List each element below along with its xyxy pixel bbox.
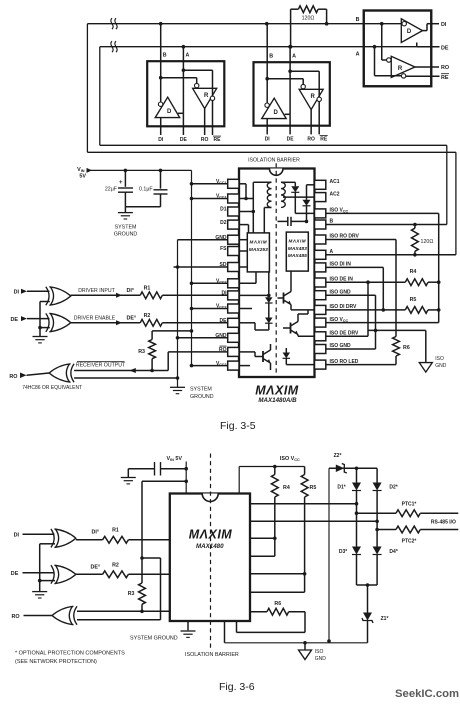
svg-text:GROUND: GROUND <box>114 231 138 237</box>
svg-text:D: D <box>167 109 172 115</box>
svg-text:* OPTIONAL PROTECTION COMPONEN: * OPTIONAL PROTECTION COMPONENTS <box>15 651 125 657</box>
svg-text:MAX483: MAX483 <box>288 246 307 252</box>
svg-text:D: D <box>407 29 412 35</box>
svg-text:SYSTEM GROUND: SYSTEM GROUND <box>130 635 178 641</box>
svg-text:GND: GND <box>315 656 327 662</box>
svg-text:RE: RE <box>441 75 449 81</box>
svg-text:A: A <box>292 54 296 60</box>
svg-text:120Ω: 120Ω <box>302 16 315 22</box>
svg-text:DI: DI <box>158 137 164 143</box>
svg-text:R: R <box>310 94 315 100</box>
svg-text:DI: DI <box>14 290 20 296</box>
svg-text:R5: R5 <box>310 485 317 491</box>
svg-text:GND: GND <box>435 363 447 369</box>
svg-text:MAX485: MAX485 <box>288 253 307 259</box>
svg-text:SYSTEM: SYSTEM <box>115 224 137 230</box>
svg-text:DI: DI <box>222 291 228 297</box>
svg-text:Z2*: Z2* <box>334 453 342 459</box>
svg-text:RO: RO <box>201 137 209 143</box>
svg-text:R3: R3 <box>128 591 135 597</box>
svg-text:DRIVER ENABLE: DRIVER ENABLE <box>74 316 116 322</box>
svg-text:ΜΛXIΜ: ΜΛXIΜ <box>289 239 307 244</box>
svg-text:Fig. 3-5: Fig. 3-5 <box>220 420 256 432</box>
svg-text:74HC86 OR EQUIVALENT: 74HC86 OR EQUIVALENT <box>22 385 82 391</box>
svg-text:RO: RO <box>441 65 449 71</box>
svg-text:AC1: AC1 <box>330 179 340 185</box>
svg-text:D2*: D2* <box>389 485 397 491</box>
svg-text:DRIVER INPUT: DRIVER INPUT <box>78 288 115 294</box>
svg-text:DE: DE <box>11 571 19 577</box>
svg-text:0.1μF: 0.1μF <box>139 187 153 193</box>
svg-text:DI: DI <box>14 533 20 539</box>
svg-text:ISO: ISO <box>315 649 324 655</box>
svg-text:D1: D1 <box>220 207 227 213</box>
svg-text:DI°: DI° <box>92 530 100 536</box>
svg-text:AC2: AC2 <box>330 191 340 197</box>
svg-text:ISOLATION BARRIER: ISOLATION BARRIER <box>248 157 300 163</box>
svg-text:DE: DE <box>11 317 19 323</box>
svg-text:MAX1480A/B: MAX1480A/B <box>258 397 297 404</box>
svg-text:DE: DE <box>441 45 449 51</box>
svg-text:R6: R6 <box>274 601 281 607</box>
svg-text:R2: R2 <box>144 313 151 319</box>
svg-text:RE: RE <box>320 137 328 143</box>
svg-text:DI°: DI° <box>127 288 135 294</box>
svg-text:R3: R3 <box>138 349 145 355</box>
svg-text:DI: DI <box>441 22 447 28</box>
svg-text:DE: DE <box>180 137 188 143</box>
svg-text:A: A <box>356 52 360 58</box>
svg-text:D3*: D3* <box>339 549 347 555</box>
svg-text:Z1*: Z1* <box>381 616 389 622</box>
svg-text:B: B <box>163 53 167 59</box>
svg-text:R4: R4 <box>283 485 290 491</box>
svg-text:ISOLATION BARRIER: ISOLATION BARRIER <box>185 652 239 658</box>
svg-text:RO: RO <box>12 614 20 620</box>
svg-text:ΜΛXIΜ: ΜΛXIΜ <box>189 528 233 542</box>
svg-text:FS: FS <box>220 246 227 252</box>
svg-text:ΜΛXIΜ: ΜΛXIΜ <box>255 384 299 398</box>
svg-text:DE: DE <box>220 318 228 324</box>
svg-text:A: A <box>185 53 189 59</box>
svg-text:B: B <box>269 54 273 60</box>
svg-text:Fig. 3-6: Fig. 3-6 <box>219 681 255 693</box>
svg-text:(SEE NETWORK PROTECTION): (SEE NETWORK PROTECTION) <box>15 659 97 665</box>
svg-text:GROUND: GROUND <box>190 394 214 400</box>
svg-text:PTC1*: PTC1* <box>402 501 417 507</box>
svg-text:MAX1480: MAX1480 <box>196 543 224 550</box>
svg-text:D1*: D1* <box>337 485 345 491</box>
svg-text:ΜΛXIΜ: ΜΛXIΜ <box>250 239 268 244</box>
svg-text:R: R <box>204 93 209 99</box>
svg-text:DE°: DE° <box>127 316 137 322</box>
svg-text:R5: R5 <box>410 297 417 303</box>
svg-text:RO: RO <box>9 374 17 380</box>
svg-text:22μF: 22μF <box>105 187 118 193</box>
svg-text:VIN 5V: VIN 5V <box>167 456 183 462</box>
svg-text:RE: RE <box>214 137 222 143</box>
svg-text:GND: GND <box>215 333 227 339</box>
svg-text:R4: R4 <box>410 269 417 275</box>
svg-text:RECEIVER OUTPUT: RECEIVER OUTPUT <box>76 362 126 368</box>
svg-text:R1: R1 <box>144 285 151 291</box>
svg-text:D4*: D4* <box>389 549 397 555</box>
svg-text:+: + <box>119 180 123 186</box>
svg-text:ISO: ISO <box>435 356 444 362</box>
svg-text:PTC2*: PTC2* <box>402 538 417 544</box>
svg-text:RO: RO <box>307 137 315 143</box>
svg-text:D2: D2 <box>220 220 227 226</box>
svg-text:R2: R2 <box>112 562 119 568</box>
svg-text:GND: GND <box>215 235 227 241</box>
svg-text:RO: RO <box>219 347 227 353</box>
svg-text:RS-485 I/O: RS-485 I/O <box>431 519 456 525</box>
svg-text:R1: R1 <box>112 527 119 533</box>
svg-text:B: B <box>356 17 360 23</box>
svg-text:R: R <box>398 66 403 72</box>
svg-text:DI: DI <box>265 137 271 143</box>
svg-text:120Ω: 120Ω <box>421 239 434 245</box>
svg-text:SYSTEM: SYSTEM <box>190 387 212 393</box>
svg-text:MAX253: MAX253 <box>249 247 268 253</box>
svg-text:DE: DE <box>287 137 295 143</box>
svg-text:DE°: DE° <box>90 564 100 570</box>
svg-text:SeekIC.com: SeekIC.com <box>395 688 459 700</box>
svg-text:D: D <box>274 110 279 116</box>
svg-text:SD: SD <box>220 262 227 268</box>
svg-text:R6: R6 <box>403 345 410 351</box>
svg-text:5V: 5V <box>79 174 86 180</box>
